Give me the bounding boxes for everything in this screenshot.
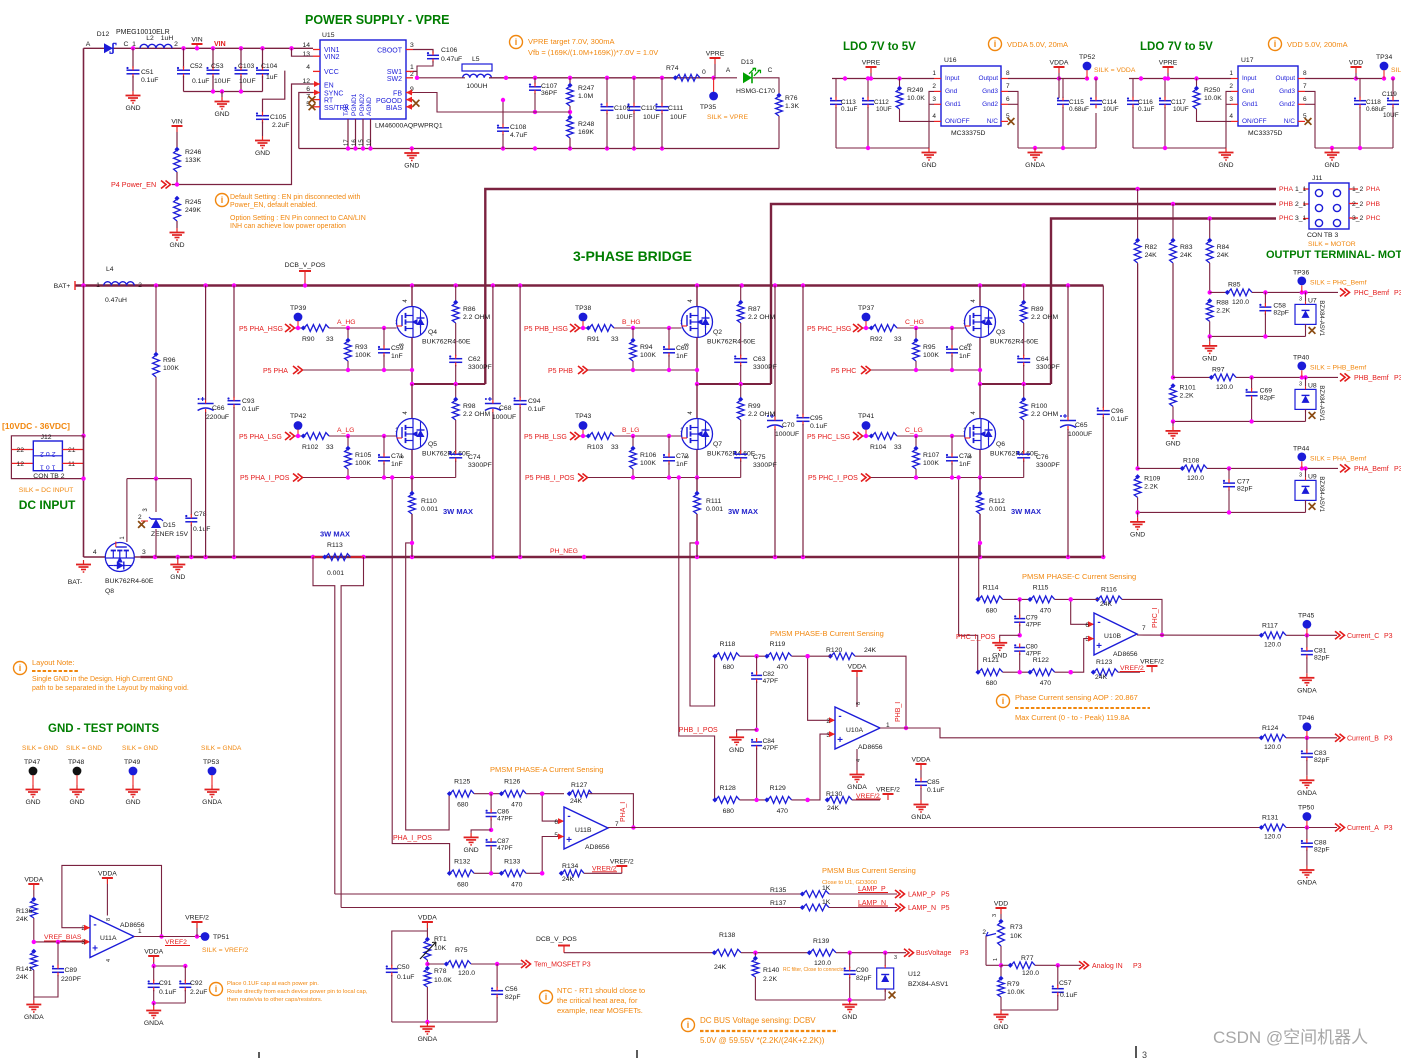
svg-text:TP41: TP41	[858, 413, 874, 420]
svg-text:R111: R111	[706, 498, 721, 505]
svg-text:1: 1	[96, 282, 100, 289]
svg-text:PHA: PHA	[1366, 186, 1380, 193]
svg-text:C119: C119	[1382, 91, 1397, 98]
resistor R125 680 top	[450, 790, 474, 797]
svg-text:R101: R101	[1180, 384, 1196, 391]
svg-text:R85: R85	[1228, 281, 1241, 288]
svg-text:VPRE: VPRE	[1159, 60, 1178, 67]
port LAMP_P P5	[895, 890, 900, 898]
svg-text:PGND2: PGND2	[359, 93, 366, 116]
svg-text:C96: C96	[1111, 408, 1124, 415]
shunt sense rail	[871, 477, 1024, 479]
capacitor C53 10UF	[212, 48, 214, 68]
svg-text:D13: D13	[741, 59, 754, 66]
svg-text:R79: R79	[1007, 981, 1020, 988]
svg-text:470: 470	[1040, 607, 1052, 614]
svg-text:100K: 100K	[923, 352, 939, 359]
testpoint TP36	[1297, 277, 1306, 286]
svg-text:R128: R128	[720, 785, 736, 792]
svg-text:C53: C53	[211, 63, 224, 70]
svg-text:D15: D15	[163, 522, 176, 529]
svg-text:R88: R88	[1216, 299, 1229, 306]
svg-text:L4: L4	[106, 266, 114, 273]
svg-text:example, near MOSFETs.: example, near MOSFETs.	[557, 1006, 643, 1015]
LAMP_P wire	[335, 893, 803, 895]
svg-text:Power_EN, default enabled.: Power_EN, default enabled.	[230, 202, 317, 209]
capacitor C106 0.47uF	[413, 50, 433, 54]
svg-text:Q5: Q5	[428, 441, 437, 448]
svg-text:P5 PHC_HSG: P5 PHC_HSG	[807, 326, 851, 333]
svg-text:2.2 OHM: 2.2 OHM	[748, 314, 776, 321]
mid node and gnd stub	[754, 728, 758, 732]
svg-text:PMSM PHASE-A Current Sensing: PMSM PHASE-A Current Sensing	[490, 765, 603, 774]
resistor R118 680 top	[716, 653, 740, 660]
orange layout note	[14, 662, 27, 675]
sheet tick marks bottom	[258, 1052, 260, 1058]
svg-text:C111: C111	[668, 105, 683, 112]
wire PHA shunt neg sense down	[406, 543, 449, 830]
svg-text:TP38: TP38	[575, 305, 591, 312]
svg-text:Q7: Q7	[713, 441, 722, 448]
capacitor C88 82pF	[1306, 828, 1308, 841]
svg-text:0.1uF: 0.1uF	[193, 526, 210, 533]
svg-text:0.001: 0.001	[421, 506, 438, 513]
svg-text:C115: C115	[1069, 99, 1084, 106]
svg-text:2: 2	[174, 41, 178, 48]
resistor R132 680 bottom	[450, 870, 474, 877]
svg-text:-: -	[1097, 617, 1100, 628]
svg-text:16: 16	[352, 139, 358, 146]
svg-text:100K: 100K	[640, 460, 656, 467]
svg-text:C63: C63	[753, 356, 766, 363]
gate resistor R104 33	[863, 435, 871, 437]
resistor R83 24K	[1170, 241, 1177, 263]
svg-text:C57: C57	[1059, 980, 1072, 987]
svg-text:3: 3	[1142, 1050, 1147, 1058]
svg-text:C90: C90	[856, 967, 869, 974]
svg-text:Output: Output	[978, 75, 998, 82]
svg-text:ON/OFF: ON/OFF	[945, 118, 970, 125]
zener U8 BZX84-ASV1	[1305, 377, 1307, 386]
svg-text:33: 33	[894, 336, 902, 343]
svg-text:U11B: U11B	[575, 827, 592, 834]
svg-text:R136: R136	[16, 908, 32, 915]
capacitor C83 82pF	[1306, 738, 1308, 751]
snubber capacitor C63 3300PF	[734, 358, 747, 360]
wire left BAT+ drop	[83, 48, 85, 285]
svg-text:11: 11	[68, 461, 75, 468]
svg-text:TP42: TP42	[290, 413, 306, 420]
svg-text:TAB: TAB	[343, 104, 350, 116]
svg-text:EN: EN	[324, 83, 334, 90]
svg-text:10.0K: 10.0K	[907, 95, 925, 102]
shunt sense rail	[303, 477, 456, 479]
svg-text:P3: P3	[1394, 466, 1401, 473]
svg-text:R100: R100	[1031, 403, 1047, 410]
svg-text:then route/via to other caps/r: then route/via to other caps/resistors.	[227, 997, 323, 1003]
wire PHB tap to R83	[1172, 204, 1174, 242]
svg-text:R117: R117	[1262, 622, 1278, 629]
op-amp U10A AD8656	[835, 707, 880, 749]
resistor R97 120.0	[1173, 376, 1211, 378]
resistor R84 24K	[1206, 241, 1213, 263]
svg-text:AGND: AGND	[366, 97, 373, 116]
bemf bottom rail	[1138, 511, 1306, 513]
svg-text:2_2: 2_2	[1352, 201, 1364, 208]
svg-text:120.0: 120.0	[814, 960, 831, 967]
svg-text:24K: 24K	[827, 805, 840, 812]
op-amp U11B AD8656	[564, 807, 608, 849]
svg-text:DCB_V_POS: DCB_V_POS	[285, 262, 326, 269]
output wire to Current_B	[880, 728, 1262, 738]
junction dots on phase wires at bemf taps	[1135, 187, 1139, 191]
svg-text:ON/OFF: ON/OFF	[1242, 118, 1267, 125]
svg-text:C106: C106	[441, 47, 457, 54]
svg-text:CBOOT: CBOOT	[377, 48, 403, 55]
svg-text:SILK = PHC_Bemf: SILK = PHC_Bemf	[1310, 279, 1367, 286]
svg-text:169K: 169K	[578, 129, 594, 136]
svg-text:R92: R92	[870, 336, 883, 343]
svg-text:10K: 10K	[1010, 933, 1023, 940]
capacitor C61 1nF	[951, 328, 953, 347]
svg-text:0.1uF: 0.1uF	[1111, 416, 1128, 423]
svg-text:VDD: VDD	[1349, 60, 1363, 67]
svg-text:VIN: VIN	[214, 41, 226, 48]
svg-text:SILK =: SILK =	[1391, 67, 1401, 74]
svg-text:P3: P3	[1384, 825, 1393, 832]
svg-text:Gnd2: Gnd2	[1279, 101, 1295, 108]
U17 gnd pins to rail	[1226, 91, 1231, 148]
wire minus input C	[1071, 599, 1094, 624]
svg-text:BUK762R4-60E: BUK762R4-60E	[105, 578, 154, 585]
svg-text:D12: D12	[97, 31, 110, 38]
svg-text:C108: C108	[510, 124, 526, 131]
wire gate high side	[329, 327, 397, 329]
svg-text:P5 PHA_I_POS: P5 PHA_I_POS	[240, 475, 290, 482]
svg-text:R73: R73	[1010, 924, 1023, 931]
orange note VDDA 5.0V 20mA	[989, 38, 1002, 51]
svg-text:C52: C52	[190, 63, 203, 70]
transistor Q4 BUK762R4-60E high side	[411, 286, 413, 307]
svg-text:U16: U16	[944, 57, 957, 64]
svg-text:SILK = VDDA: SILK = VDDA	[1094, 67, 1136, 74]
svg-text:VDDA: VDDA	[1050, 60, 1069, 67]
svg-text:10K: 10K	[434, 945, 447, 952]
svg-text:GNDA: GNDA	[202, 799, 222, 806]
svg-text:0.001: 0.001	[327, 570, 344, 577]
svg-text:C66: C66	[212, 405, 225, 412]
svg-text:Layout Note:: Layout Note:	[32, 658, 75, 667]
svg-text:PHC_I_POS: PHC_I_POS	[956, 634, 996, 641]
capacitor C84 47PF bottom	[751, 741, 762, 743]
svg-text:BUK762R4-60E: BUK762R4-60E	[990, 451, 1039, 458]
svg-text:R115: R115	[1033, 584, 1049, 591]
svg-text:47PF: 47PF	[497, 845, 513, 852]
svg-text:4: 4	[93, 549, 97, 556]
svg-text:2.2K: 2.2K	[763, 976, 777, 983]
svg-text:10UF: 10UF	[239, 78, 256, 85]
svg-text:680: 680	[986, 680, 998, 687]
svg-text:RT: RT	[324, 98, 334, 105]
svg-text:U10A: U10A	[846, 727, 863, 734]
resistor R127 24K feedback A	[570, 790, 592, 797]
testpoint TP35	[713, 78, 715, 92]
svg-text:R137: R137	[770, 900, 786, 907]
svg-text:Default Setting : EN pin disco: Default Setting : EN pin disconnected wi…	[230, 194, 360, 201]
shunt sense rail	[588, 477, 741, 479]
svg-text:PHC: PHC	[1279, 215, 1293, 222]
DCBV bottom rail and ground	[755, 999, 885, 1001]
svg-text:P5 PHB_LSG: P5 PHB_LSG	[524, 434, 567, 441]
ground symbol under U15	[411, 149, 413, 154]
svg-text:i: i	[515, 37, 518, 47]
svg-text:2.2 OHM: 2.2 OHM	[463, 411, 491, 418]
svg-text:TP49: TP49	[124, 759, 140, 766]
svg-text:0.1uF: 0.1uF	[841, 106, 857, 113]
svg-text:1: 1	[1229, 70, 1233, 77]
svg-text:-: -	[567, 811, 570, 822]
svg-text:R95: R95	[923, 344, 936, 351]
svg-text:24K: 24K	[1217, 252, 1230, 259]
resistor R136 24K	[30, 900, 37, 918]
svg-text:R97: R97	[1212, 366, 1225, 373]
inductor L2 1uH	[140, 44, 172, 48]
svg-text:47PF: 47PF	[497, 816, 513, 823]
wire FB to divider	[413, 93, 570, 113]
power flag VDDA decoupling C91 C92	[153, 956, 155, 962]
svg-text:PHB_I: PHB_I	[895, 702, 902, 722]
svg-text:Gnd3: Gnd3	[982, 88, 998, 95]
svg-text:R245: R245	[185, 199, 201, 206]
svg-text:GND: GND	[69, 799, 84, 806]
wire high side source to mid node	[411, 338, 413, 385]
power flag VDDA decoupling C85	[920, 764, 922, 770]
svg-text:R96: R96	[163, 357, 176, 364]
svg-text:Q8: Q8	[105, 588, 114, 595]
svg-text:24K: 24K	[16, 974, 29, 981]
svg-text:C104: C104	[261, 63, 277, 70]
snubber resistor R87 2.2 OHM	[740, 286, 742, 304]
svg-text:R90: R90	[302, 336, 315, 343]
op-amp U10B AD8656	[1094, 613, 1137, 655]
svg-text:C58: C58	[1273, 302, 1286, 309]
ground GNDA below U16	[1034, 148, 1036, 153]
gate node rail of Q8	[127, 478, 191, 480]
svg-text:3: 3	[932, 96, 936, 103]
svg-text:R93: R93	[355, 344, 368, 351]
feedback loop U11A	[62, 865, 162, 936]
IC U17 MC33375D	[1238, 66, 1298, 126]
snubber capacitor C76 3300PF low	[1017, 453, 1030, 455]
svg-text:SILK = DC INPUT: SILK = DC INPUT	[19, 487, 74, 494]
wire PHA_I_POS down to sense block	[392, 478, 449, 874]
svg-text:C82: C82	[763, 671, 775, 678]
svg-text:C93: C93	[242, 398, 255, 405]
svg-text:A: A	[86, 41, 91, 48]
resistor R141 24K	[30, 952, 37, 970]
resistor R116 24K feedback	[1098, 596, 1122, 603]
resistor R79 10.0K	[1000, 965, 1002, 978]
svg-text:VDDA: VDDA	[912, 757, 931, 764]
svg-text:P5 PHC_LSG: P5 PHC_LSG	[807, 434, 850, 441]
svg-text:82pF: 82pF	[1260, 394, 1276, 401]
svg-text:120.0: 120.0	[1216, 384, 1233, 391]
svg-text:P3: P3	[960, 950, 969, 957]
svg-text:VREF/2: VREF/2	[1120, 665, 1144, 672]
svg-text:R126: R126	[504, 779, 520, 786]
svg-text:1nF: 1nF	[676, 353, 688, 360]
node R108 divider	[1135, 466, 1139, 470]
svg-text:GNDA: GNDA	[847, 784, 867, 791]
gate resistor R91 33	[580, 327, 588, 329]
ground below U17	[1225, 148, 1227, 153]
capacitor C111 10UF	[661, 78, 663, 104]
svg-text:7: 7	[1006, 83, 1010, 90]
svg-text:82pF: 82pF	[1237, 485, 1253, 492]
svg-text:PHB_Bemf: PHB_Bemf	[1354, 375, 1389, 382]
svg-text:R99: R99	[748, 403, 761, 410]
resistor R133 470 bottom	[502, 870, 526, 877]
svg-text:0.1uF: 0.1uF	[192, 78, 209, 85]
svg-text:R250: R250	[1204, 87, 1220, 94]
svg-text:7: 7	[1303, 83, 1307, 90]
svg-text:3: 3	[1299, 381, 1302, 387]
resistor R130 24K to vref B	[828, 797, 852, 804]
svg-text:470: 470	[777, 808, 789, 815]
GNDA below C81	[1306, 673, 1308, 678]
svg-text:C87: C87	[497, 838, 509, 845]
svg-text:CON TB 2: CON TB 2	[33, 473, 64, 480]
svg-text:VIN1: VIN1	[324, 47, 340, 54]
svg-text:PHA_Bemf: PHA_Bemf	[1354, 466, 1389, 473]
svg-text:3: 3	[81, 939, 85, 946]
svg-text:SILK = VREF/2: SILK = VREF/2	[202, 947, 248, 954]
svg-text:PGOOD: PGOOD	[376, 98, 402, 105]
wire PHC shunt neg sense down	[979, 543, 980, 600]
svg-text:24K: 24K	[1100, 601, 1113, 608]
svg-text:100K: 100K	[163, 365, 179, 372]
svg-text:GND: GND	[404, 163, 419, 170]
svg-text:C78: C78	[194, 511, 207, 518]
svg-text:C85: C85	[927, 779, 940, 786]
bemf bottom rail	[1173, 420, 1306, 422]
svg-text:4: 4	[306, 64, 310, 71]
svg-text:U10B: U10B	[1104, 633, 1121, 640]
orange note NTC RT1	[540, 991, 553, 1004]
svg-text:120.0: 120.0	[1264, 744, 1281, 751]
capacitor C95 0.1uF	[802, 286, 804, 416]
svg-text:GND: GND	[169, 242, 184, 249]
svg-text:R131: R131	[1262, 815, 1278, 822]
transistor Q6 BUK762R4-60E low side	[979, 384, 981, 419]
U16 right gnd pins	[1008, 91, 1018, 148]
wire plus input B	[808, 734, 835, 800]
svg-text:BZX84-ASV1: BZX84-ASV1	[1318, 385, 1324, 421]
svg-text:24K: 24K	[1095, 674, 1108, 681]
ground below U16	[928, 148, 930, 153]
svg-text:1: 1	[138, 928, 142, 935]
svg-text:SILK = GND: SILK = GND	[66, 745, 102, 752]
svg-text:PHB_I_POS: PHB_I_POS	[679, 727, 718, 734]
bottom rail R73 block	[1001, 1009, 1058, 1011]
svg-text:LM46000AQPWPRQ1: LM46000AQPWPRQ1	[375, 123, 443, 130]
svg-text:P5 PHB_I_POS: P5 PHB_I_POS	[525, 475, 575, 482]
svg-text:-: -	[93, 920, 96, 931]
svg-text:P5 PHC_I_POS: P5 PHC_I_POS	[808, 475, 858, 482]
svg-text:VPRE: VPRE	[706, 51, 725, 58]
svg-text:PHC: PHC	[1366, 215, 1380, 222]
svg-text:0.1uF: 0.1uF	[1138, 106, 1154, 113]
svg-text:R106: R106	[640, 452, 656, 459]
svg-text:0.1uF: 0.1uF	[528, 406, 545, 413]
svg-text:CSDN @空间机器人: CSDN @空间机器人	[1213, 1028, 1368, 1047]
svg-text:1.0M: 1.0M	[578, 93, 593, 100]
svg-text:R104: R104	[870, 444, 886, 451]
gate resistor R90 33	[295, 327, 303, 329]
svg-text:R135: R135	[770, 887, 786, 894]
gate resistor R102 33	[295, 435, 303, 437]
svg-text:17: 17	[344, 139, 350, 146]
svg-text:C105: C105	[270, 114, 286, 121]
svg-text:21: 21	[68, 447, 76, 454]
svg-text:GND: GND	[214, 111, 229, 118]
U16 gnd pins to rail	[929, 91, 934, 148]
output wire VREF/2	[134, 936, 205, 938]
wire VIN input rail	[84, 47, 314, 49]
svg-text:N/C: N/C	[987, 118, 999, 125]
svg-text:P3: P3	[1394, 375, 1401, 382]
resistor R119 470 top	[768, 653, 792, 660]
svg-text:BUK762R4-60E: BUK762R4-60E	[707, 451, 756, 458]
svg-text:TP51: TP51	[213, 934, 229, 941]
power flag VDDA RT1	[426, 922, 428, 928]
transistor Q8 BUK762R4-60E	[84, 556, 106, 558]
svg-text:R107: R107	[923, 452, 939, 459]
svg-text:12: 12	[16, 461, 24, 468]
svg-text:C113: C113	[841, 99, 856, 106]
snubber capacitor C64 3300PF	[1017, 358, 1030, 360]
svg-text:8: 8	[106, 918, 112, 921]
svg-text:100K: 100K	[355, 352, 371, 359]
svg-text:C81: C81	[1314, 647, 1327, 654]
port BusVoltage P3	[904, 949, 909, 957]
capacitor C80 47PF bottom	[1014, 647, 1025, 649]
svg-text:3W MAX: 3W MAX	[320, 530, 350, 539]
svg-text:VDDA: VDDA	[848, 664, 867, 671]
bemf divider PHA	[1137, 264, 1139, 468]
port PHA_Bemf P3	[1340, 464, 1345, 472]
svg-text:1K: 1K	[822, 885, 831, 892]
svg-text:C64: C64	[1036, 356, 1049, 363]
resistor R74	[676, 74, 700, 81]
resistor R82 24K	[1134, 241, 1141, 263]
svg-text:MC33375D: MC33375D	[1248, 130, 1282, 137]
svg-text:33: 33	[326, 336, 334, 343]
resistor R117 120.0	[1262, 632, 1286, 639]
svg-text:3: 3	[142, 549, 146, 556]
capacitor C110 10UF	[633, 78, 635, 104]
svg-text:GNDA: GNDA	[1297, 880, 1317, 887]
svg-text:VDD 5.0V, 200mA: VDD 5.0V, 200mA	[1287, 40, 1348, 49]
svg-text:P5 PHB_HSG: P5 PHB_HSG	[524, 326, 568, 333]
svg-text:36PF: 36PF	[541, 90, 557, 97]
svg-text:3: 3	[1299, 472, 1302, 478]
testpoint TP43	[579, 421, 588, 430]
svg-text:BAT+: BAT+	[54, 283, 71, 290]
port Tem_MOSFET P3	[521, 960, 526, 968]
svg-text:[10VDC - 36VDC]: [10VDC - 36VDC]	[2, 421, 70, 431]
svg-text:Route directly from each devic: Route directly from each device power pi…	[227, 989, 368, 995]
